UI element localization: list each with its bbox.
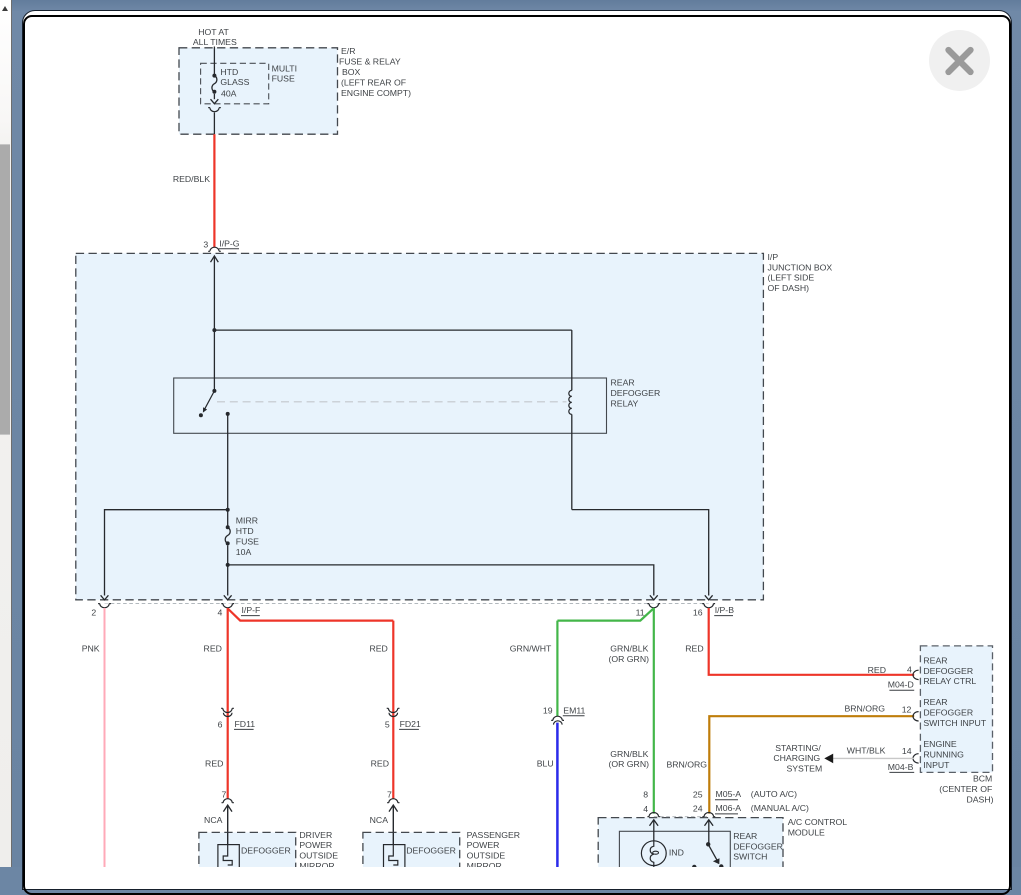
fuse HTD GLASS 40A bbox=[212, 74, 217, 94]
svg-text:GRN/BLK: GRN/BLK bbox=[610, 749, 648, 759]
svg-text:(OR GRN): (OR GRN) bbox=[608, 654, 649, 664]
svg-text:STARTING/: STARTING/ bbox=[775, 743, 821, 753]
label REAR DEFOGGER SWITCH bbox=[733, 831, 783, 862]
wire PNK bbox=[104, 608, 106, 867]
wire RED to BCM bbox=[709, 608, 915, 675]
svg-text:REAR: REAR bbox=[611, 378, 635, 388]
entry arrow A/C left bbox=[650, 820, 659, 826]
wire down to relay contact bbox=[213, 330, 215, 391]
driver defogger element bbox=[218, 845, 239, 869]
svg-text:ENGINE COMPT): ENGINE COMPT) bbox=[341, 88, 411, 98]
passenger defogger element bbox=[384, 845, 405, 869]
label BCM CENTER OF DASH bbox=[939, 774, 993, 805]
connector arc pin 16 bbox=[702, 604, 715, 608]
pin 24 M06-A MANUAL A/C bbox=[693, 803, 809, 814]
svg-text:I/P-F: I/P-F bbox=[242, 605, 261, 615]
node junction dot bbox=[212, 328, 216, 332]
svg-text:BLU: BLU bbox=[537, 759, 554, 769]
svg-text:M04-D: M04-D bbox=[888, 680, 914, 690]
relay contact blade bbox=[204, 391, 214, 410]
connector FD11 bbox=[218, 708, 256, 729]
svg-text:RED: RED bbox=[205, 758, 223, 768]
svg-text:REAR: REAR bbox=[733, 831, 757, 841]
connector I/P-F bbox=[241, 605, 260, 616]
svg-text:(CENTER OF: (CENTER OF bbox=[939, 784, 992, 794]
svg-text:DEFOGGER: DEFOGGER bbox=[241, 845, 291, 855]
svg-text:POWER: POWER bbox=[299, 840, 332, 850]
connector arc pin 4 bbox=[221, 604, 234, 608]
label ENGINE RUNNING INPUT bbox=[923, 739, 964, 770]
svg-text:EM11: EM11 bbox=[563, 705, 585, 715]
svg-text:I/P-G: I/P-G bbox=[219, 238, 240, 248]
svg-text:12: 12 bbox=[902, 704, 912, 714]
connector FD21 bbox=[385, 708, 421, 729]
pin 7 driver connector bbox=[221, 790, 233, 812]
wire fuse to exit 11 bbox=[228, 565, 654, 596]
wire into driver mirror box bbox=[227, 832, 229, 844]
svg-text:M06-A: M06-A bbox=[716, 803, 742, 813]
svg-text:ENGINE: ENGINE bbox=[923, 739, 957, 749]
switch blade arrowhead bbox=[713, 858, 720, 864]
wire fuse to exit 4 bbox=[227, 565, 229, 596]
relay contact pivot dot bbox=[212, 389, 216, 393]
pin 25 M05-A AUTO A/C bbox=[693, 789, 797, 800]
wire WHT/BLK bbox=[833, 757, 914, 759]
BCM pin 14 arc bbox=[913, 754, 919, 763]
connector EM11 bbox=[543, 705, 586, 724]
label PASSENGER POWER OUTSIDE MIRROR bbox=[467, 830, 520, 871]
svg-text:SWITCH INPUT: SWITCH INPUT bbox=[923, 718, 986, 728]
svg-text:11: 11 bbox=[636, 607, 645, 617]
label MULTI FUSE bbox=[272, 64, 297, 84]
relay coil L1 bbox=[569, 390, 572, 414]
relay actuation dashed link bbox=[217, 401, 567, 403]
wire GRN/WHT drop to EM11 bbox=[556, 621, 558, 717]
page edge dark line bbox=[11, 0, 13, 867]
scrollbar up arrow bbox=[2, 6, 8, 11]
svg-text:POWER: POWER bbox=[467, 840, 500, 850]
arrow to starting charging system bbox=[824, 754, 833, 764]
svg-text:FUSE & RELAY: FUSE & RELAY bbox=[339, 57, 401, 67]
BCM box bbox=[920, 646, 992, 773]
svg-text:M04-B: M04-B bbox=[888, 762, 914, 772]
svg-text:RED: RED bbox=[868, 665, 886, 675]
svg-text:M05-A: M05-A bbox=[716, 789, 742, 799]
wire junction to coil branch bbox=[214, 329, 571, 331]
switch contact dot right bbox=[719, 864, 723, 868]
svg-text:10A: 10A bbox=[236, 547, 252, 557]
svg-text:BRN/ORG: BRN/ORG bbox=[844, 704, 885, 714]
svg-text:GRN/WHT: GRN/WHT bbox=[510, 643, 552, 653]
BCM pin 4 arc bbox=[913, 670, 919, 679]
svg-text:RELAY CTRL: RELAY CTRL bbox=[923, 676, 976, 686]
wire BLU bbox=[556, 723, 559, 867]
svg-text:IND: IND bbox=[669, 848, 684, 858]
svg-text:HOT AT: HOT AT bbox=[198, 27, 229, 37]
svg-text:2: 2 bbox=[91, 607, 96, 617]
svg-text:I/P-B: I/P-B bbox=[715, 605, 735, 615]
exit arrow pin 16 bbox=[705, 595, 713, 600]
switch contact dot left bbox=[692, 865, 696, 869]
label MIRR HTD FUSE 10A bbox=[236, 516, 259, 557]
svg-text:DRIVER: DRIVER bbox=[299, 830, 332, 840]
wire RED/BLK bbox=[213, 134, 215, 247]
svg-text:MODULE: MODULE bbox=[788, 828, 825, 838]
svg-text:4: 4 bbox=[907, 664, 912, 674]
svg-text:3: 3 bbox=[203, 239, 208, 249]
svg-text:40A: 40A bbox=[221, 88, 237, 98]
entry arrow A/C right bbox=[705, 820, 714, 826]
label I/P JUNCTION BOX bbox=[768, 252, 833, 293]
wire RED passenger drop bbox=[392, 621, 394, 799]
svg-text:BRN/ORG: BRN/ORG bbox=[666, 759, 707, 769]
label DRIVER POWER OUTSIDE MIRROR bbox=[299, 830, 338, 871]
label GRN/BLK (OR GRN) lower bbox=[608, 749, 649, 769]
relay contact dot B bbox=[226, 412, 230, 416]
svg-text:FD11: FD11 bbox=[235, 719, 256, 729]
wire down to junction bbox=[213, 257, 215, 331]
rear defogger switch blade bbox=[708, 844, 717, 860]
passenger mirror box bbox=[363, 832, 460, 878]
label HTD GLASS 40A bbox=[220, 67, 249, 98]
wire RED branch diagonal bbox=[228, 609, 394, 621]
svg-text:4: 4 bbox=[643, 804, 648, 814]
svg-text:NCA: NCA bbox=[370, 815, 389, 825]
connector arc A/C pin left bbox=[647, 813, 660, 817]
wire down to relay coil bbox=[571, 330, 573, 390]
svg-text:MIRR: MIRR bbox=[236, 516, 258, 526]
svg-text:4: 4 bbox=[218, 607, 223, 617]
svg-text:PASSENGER: PASSENGER bbox=[467, 830, 520, 840]
svg-text:DEFOGGER: DEFOGGER bbox=[733, 841, 783, 851]
svg-text:BOX: BOX bbox=[342, 67, 361, 77]
svg-text:REAR: REAR bbox=[923, 655, 947, 665]
svg-text:RED/BLK: RED/BLK bbox=[173, 174, 210, 184]
node below fuse bbox=[226, 563, 230, 567]
wire to E/R box bottom bbox=[213, 112, 215, 134]
svg-text:REAR: REAR bbox=[923, 697, 947, 707]
label E/R FUSE & RELAY BOX bbox=[339, 46, 411, 98]
svg-text:6: 6 bbox=[218, 719, 223, 729]
svg-text:16: 16 bbox=[693, 607, 703, 617]
connector bar under I/P box bbox=[105, 603, 709, 605]
A/C control module box bbox=[598, 818, 783, 878]
wire RED driver drop bbox=[227, 608, 229, 799]
node fuse junction dot bbox=[226, 508, 230, 512]
svg-text:MIRROR: MIRROR bbox=[299, 861, 334, 867]
BCM pin 12 arc bbox=[913, 712, 919, 721]
wire to lamp bbox=[653, 820, 655, 841]
wire GRN/BLK drop bbox=[653, 608, 655, 814]
multi fuse inner box bbox=[201, 63, 269, 104]
pin 7 passenger connector bbox=[387, 790, 399, 812]
svg-text:(LEFT REAR OF: (LEFT REAR OF bbox=[341, 77, 406, 87]
svg-text:HTD: HTD bbox=[220, 67, 238, 77]
svg-text:DASH): DASH) bbox=[966, 795, 993, 805]
svg-text:7: 7 bbox=[387, 790, 392, 800]
lamp IND bbox=[641, 841, 666, 867]
svg-text:FUSE: FUSE bbox=[236, 536, 259, 546]
svg-text:JUNCTION BOX: JUNCTION BOX bbox=[768, 262, 833, 272]
label REAR DEFOGGER SWITCH INPUT bbox=[923, 697, 986, 728]
svg-text:19: 19 bbox=[543, 706, 553, 716]
relay blade arrowhead bbox=[203, 407, 207, 412]
connector I/P-G bbox=[208, 238, 240, 251]
svg-text:DEFOGGER: DEFOGGER bbox=[923, 707, 973, 717]
svg-text:DEFOGGER: DEFOGGER bbox=[406, 845, 456, 855]
connector M04-B bbox=[888, 762, 914, 772]
svg-text:24: 24 bbox=[693, 804, 703, 814]
svg-text:MULTI: MULTI bbox=[272, 64, 297, 74]
connector arc below fuse bbox=[208, 108, 221, 112]
labels 8 and 4 at A/C pins bbox=[643, 790, 648, 814]
exit arrow pin 11 bbox=[650, 595, 658, 600]
svg-text:DEFOGGER: DEFOGGER bbox=[923, 666, 973, 676]
wire into passenger mirror box bbox=[392, 832, 394, 844]
A/C inner box bbox=[619, 831, 730, 877]
svg-text:FUSE: FUSE bbox=[272, 74, 295, 84]
svg-text:OUTSIDE: OUTSIDE bbox=[299, 851, 338, 861]
close button bbox=[929, 30, 990, 91]
svg-text:MIRROR: MIRROR bbox=[467, 861, 502, 867]
wire GRN diagonal branch bbox=[557, 608, 653, 620]
label REAR DEFOGGER RELAY CTRL bbox=[923, 655, 976, 686]
wire coil to corner bbox=[571, 414, 573, 509]
wire NCA driver bbox=[227, 805, 229, 844]
svg-text:RED: RED bbox=[369, 643, 387, 653]
svg-text:5: 5 bbox=[385, 719, 390, 729]
label STARTING CHARGING SYSTEM bbox=[773, 743, 822, 774]
browser scrollbar track bbox=[0, 0, 11, 867]
arrow down to connector bbox=[211, 99, 219, 104]
svg-text:(OR GRN): (OR GRN) bbox=[608, 759, 649, 769]
svg-text:(MANUAL A/C): (MANUAL A/C) bbox=[751, 803, 809, 813]
svg-text:A/C CONTROL: A/C CONTROL bbox=[788, 817, 848, 827]
svg-text:BCM: BCM bbox=[973, 774, 992, 784]
svg-text:RED: RED bbox=[685, 643, 703, 653]
wire branch to exit 2 bbox=[105, 510, 228, 596]
wire BRN/ORG to BCM bbox=[709, 716, 914, 813]
svg-text:RELAY: RELAY bbox=[611, 398, 639, 408]
switch pivot dot bbox=[706, 842, 710, 846]
svg-text:(AUTO A/C): (AUTO A/C) bbox=[751, 789, 797, 799]
wire to switch bbox=[708, 820, 710, 844]
pin labels 2 4 11 16 bbox=[91, 607, 702, 617]
svg-text:RED: RED bbox=[204, 643, 222, 653]
svg-text:SWITCH: SWITCH bbox=[733, 852, 767, 862]
svg-text:FD21: FD21 bbox=[400, 719, 421, 729]
connector arc pin 2 bbox=[98, 604, 111, 608]
driver mirror box bbox=[199, 832, 296, 878]
entry arrow at I/P-G bbox=[211, 256, 219, 262]
wire from HOT AT into fuse bbox=[213, 47, 215, 76]
svg-text:I/P: I/P bbox=[768, 252, 779, 262]
exit arrow pin 2 bbox=[101, 595, 109, 600]
svg-text:SYSTEM: SYSTEM bbox=[786, 764, 822, 774]
svg-text:7: 7 bbox=[221, 790, 226, 800]
fuse MIRR HTD 10A bbox=[225, 510, 230, 565]
scrollbar thumb bbox=[0, 144, 10, 435]
svg-text:GLASS: GLASS bbox=[220, 77, 249, 87]
wire contact to fuse junction bbox=[227, 414, 229, 510]
svg-text:PNK: PNK bbox=[82, 643, 100, 653]
svg-text:HTD: HTD bbox=[236, 526, 254, 536]
svg-text:DEFOGGER: DEFOGGER bbox=[611, 388, 661, 398]
wire corner to exit 16 bbox=[572, 510, 709, 596]
svg-text:RED: RED bbox=[371, 758, 389, 768]
svg-text:ALL TIMES: ALL TIMES bbox=[193, 37, 237, 47]
label REAR DEFOGGER RELAY bbox=[611, 378, 661, 409]
label A/C CONTROL MODULE bbox=[788, 817, 848, 837]
connector arc pin 11 bbox=[647, 604, 660, 608]
svg-text:25: 25 bbox=[693, 789, 703, 799]
E/R fuse and relay box bbox=[179, 48, 338, 134]
svg-text:OF DASH): OF DASH) bbox=[768, 283, 810, 293]
relay contact dot A bbox=[199, 413, 203, 417]
relay box bbox=[174, 378, 607, 433]
wire NCA passenger bbox=[392, 805, 394, 844]
svg-text:OUTSIDE: OUTSIDE bbox=[467, 851, 506, 861]
label HOT AT ALL TIMES bbox=[193, 27, 237, 47]
connector bar at A/C box bbox=[654, 816, 709, 818]
label GRN/BLK (OR GRN) upper bbox=[608, 643, 649, 663]
svg-text:CHARGING: CHARGING bbox=[773, 753, 820, 763]
svg-text:INPUT: INPUT bbox=[923, 760, 950, 770]
connector M04-D bbox=[888, 680, 914, 691]
svg-text:8: 8 bbox=[643, 790, 648, 800]
svg-text:RUNNING: RUNNING bbox=[923, 750, 964, 760]
exit arrow pin 4 bbox=[224, 595, 232, 600]
I/P junction box bbox=[76, 253, 764, 599]
svg-text:WHT/BLK: WHT/BLK bbox=[847, 745, 886, 755]
svg-text:NCA: NCA bbox=[204, 815, 223, 825]
connector arc A/C pin right bbox=[702, 813, 715, 817]
svg-text:GRN/BLK: GRN/BLK bbox=[610, 643, 648, 653]
connector I/P-B bbox=[714, 605, 734, 616]
svg-text:14: 14 bbox=[902, 746, 912, 756]
svg-text:(LEFT SIDE: (LEFT SIDE bbox=[768, 273, 815, 283]
svg-text:E/R: E/R bbox=[341, 46, 355, 56]
wire fuse to arrow bbox=[213, 94, 215, 99]
